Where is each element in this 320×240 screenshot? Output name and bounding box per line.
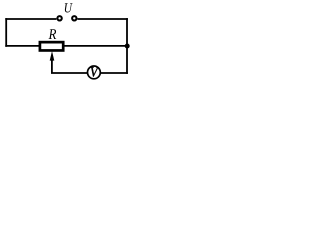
wire middle-right segment <box>64 45 128 47</box>
wire top-left segment <box>5 18 56 20</box>
wire middle-left segment <box>5 45 39 47</box>
node junction dot <box>125 44 130 49</box>
terminal (right, open circle) <box>72 16 76 20</box>
resistor R (rheostat body) <box>40 42 63 50</box>
terminal (left, open circle) <box>57 16 61 20</box>
wire bottom segment <box>51 72 128 74</box>
voltmeter V <box>88 66 101 79</box>
wire left column <box>5 18 7 47</box>
wire right column <box>126 18 128 74</box>
wiper arrow (sliding contact) <box>50 51 55 73</box>
wire top-right segment <box>77 18 128 20</box>
label R <box>49 29 57 39</box>
label U <box>65 3 73 12</box>
